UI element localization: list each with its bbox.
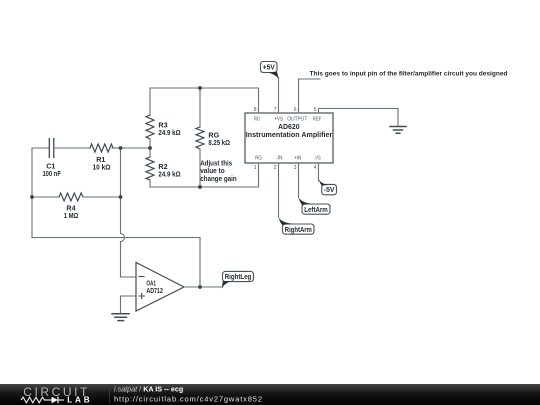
svg-text:change gain: change gain xyxy=(200,174,237,183)
svg-text:-IN: -IN xyxy=(276,155,283,161)
node RG bottom xyxy=(198,185,202,189)
svg-text:OUTPUT: OUTPUT xyxy=(287,116,307,122)
wire pin 6 output xyxy=(299,79,321,113)
wire noninverting input xyxy=(121,296,137,313)
wire feedback vertical xyxy=(199,238,201,288)
svg-text:2: 2 xyxy=(274,165,277,171)
svg-text:4: 4 xyxy=(314,165,317,171)
node output junction xyxy=(198,285,202,289)
svg-text:AD712: AD712 xyxy=(146,286,163,295)
flag -5V xyxy=(318,178,336,194)
svg-text:RG: RG xyxy=(254,116,260,122)
wire bottom rail xyxy=(150,186,259,188)
wire C1 to R1 xyxy=(54,147,90,149)
ground REF xyxy=(390,127,406,134)
wire R3 to R2 xyxy=(149,139,151,157)
svg-text:http://circuitlab.com/c4v27gwa: http://circuitlab.com/c4v27gwatx852 xyxy=(114,395,262,404)
wire RG bottom xyxy=(199,149,201,187)
resistor R1 xyxy=(90,144,113,152)
svg-text:6: 6 xyxy=(294,107,297,113)
flag RightArm xyxy=(279,217,315,234)
svg-text:1: 1 xyxy=(254,165,257,171)
AD620 box U1 xyxy=(245,113,333,163)
wire pin 5 REF to ground xyxy=(319,109,399,126)
svg-text:24.9 kΩ: 24.9 kΩ xyxy=(158,128,180,137)
node R4 right xyxy=(119,195,123,199)
svg-text:100 nF: 100 nF xyxy=(42,169,61,178)
wire R1 junction to R3R2 midpoint xyxy=(121,147,151,149)
logo diode xyxy=(52,397,59,404)
svg-text:LAB: LAB xyxy=(67,396,90,405)
svg-text:+IN: +IN xyxy=(294,155,301,161)
svg-text:10 kΩ: 10 kΩ xyxy=(93,162,111,171)
flag +5V xyxy=(261,62,279,79)
wire op-amp output xyxy=(184,286,222,288)
op-amp minus sign xyxy=(139,276,144,278)
svg-text:i.satpat / KA IS -- ecg: i.satpat / KA IS -- ecg xyxy=(114,384,183,393)
wire R3 column top xyxy=(149,88,151,115)
wire RG column top xyxy=(199,88,201,127)
wire left to C1 xyxy=(32,147,49,149)
svg-text:RG: RG xyxy=(255,155,262,161)
resistor R3 xyxy=(146,115,154,139)
svg-text:5: 5 xyxy=(314,107,317,113)
svg-text:+VS: +VS xyxy=(274,116,283,122)
svg-text:LeftArm: LeftArm xyxy=(304,207,328,214)
svg-text:REF: REF xyxy=(313,116,322,122)
resistor R2 xyxy=(146,157,154,180)
ground op-amp xyxy=(112,314,129,321)
wire pin 3 stub xyxy=(298,163,300,198)
svg-text:-VS: -VS xyxy=(314,155,321,161)
wire R4 left xyxy=(32,196,59,198)
wire left vertical xyxy=(31,148,33,238)
svg-text:+5V: +5V xyxy=(263,65,275,72)
svg-text:RightArm: RightArm xyxy=(285,227,312,234)
node R3 R2 midpoint xyxy=(148,146,152,150)
resistor RG xyxy=(196,127,204,149)
capacitor C1 xyxy=(49,139,54,158)
svg-text:1 MΩ: 1 MΩ xyxy=(64,211,79,220)
wire pin 2 stub xyxy=(278,163,280,217)
wire R1 to junction xyxy=(112,147,121,149)
node R1 R4 junction xyxy=(119,146,123,150)
svg-text:This goes to input pin of the: This goes to input pin of the filter/amp… xyxy=(310,71,508,78)
wire pin 7 stub to +5V xyxy=(278,78,280,114)
op-amp OA1 triangle xyxy=(136,263,184,312)
logo resistor zigzag xyxy=(21,397,52,403)
wire pin 4 stub xyxy=(318,163,320,181)
svg-text:Instrumentation Amplifier: Instrumentation Amplifier xyxy=(246,130,333,139)
wire pin 8 stub xyxy=(258,88,260,113)
flag LeftArm xyxy=(299,197,331,214)
footer separator xyxy=(109,386,111,403)
svg-text:-5V: -5V xyxy=(324,187,335,194)
wire feedback horizontal xyxy=(32,237,200,239)
flag RightLeg xyxy=(222,271,254,288)
svg-text:8.25 kΩ: 8.25 kΩ xyxy=(208,138,230,147)
wire top rail xyxy=(150,87,259,89)
wire inverting vertical with hop xyxy=(121,148,137,277)
node RG top xyxy=(198,86,202,90)
svg-text:RightLeg: RightLeg xyxy=(225,274,252,281)
resistor R4 xyxy=(59,193,83,201)
wire R4 right xyxy=(83,196,121,198)
svg-text:8: 8 xyxy=(254,107,257,113)
svg-text:24.9 kΩ: 24.9 kΩ xyxy=(158,169,180,178)
op-amp plus sign xyxy=(139,293,145,298)
svg-text:3: 3 xyxy=(294,165,297,171)
node left R4 xyxy=(30,195,34,199)
wire R2 bottom xyxy=(149,180,151,187)
wire pin 1 stub xyxy=(258,163,260,187)
svg-text:7: 7 xyxy=(274,107,277,113)
